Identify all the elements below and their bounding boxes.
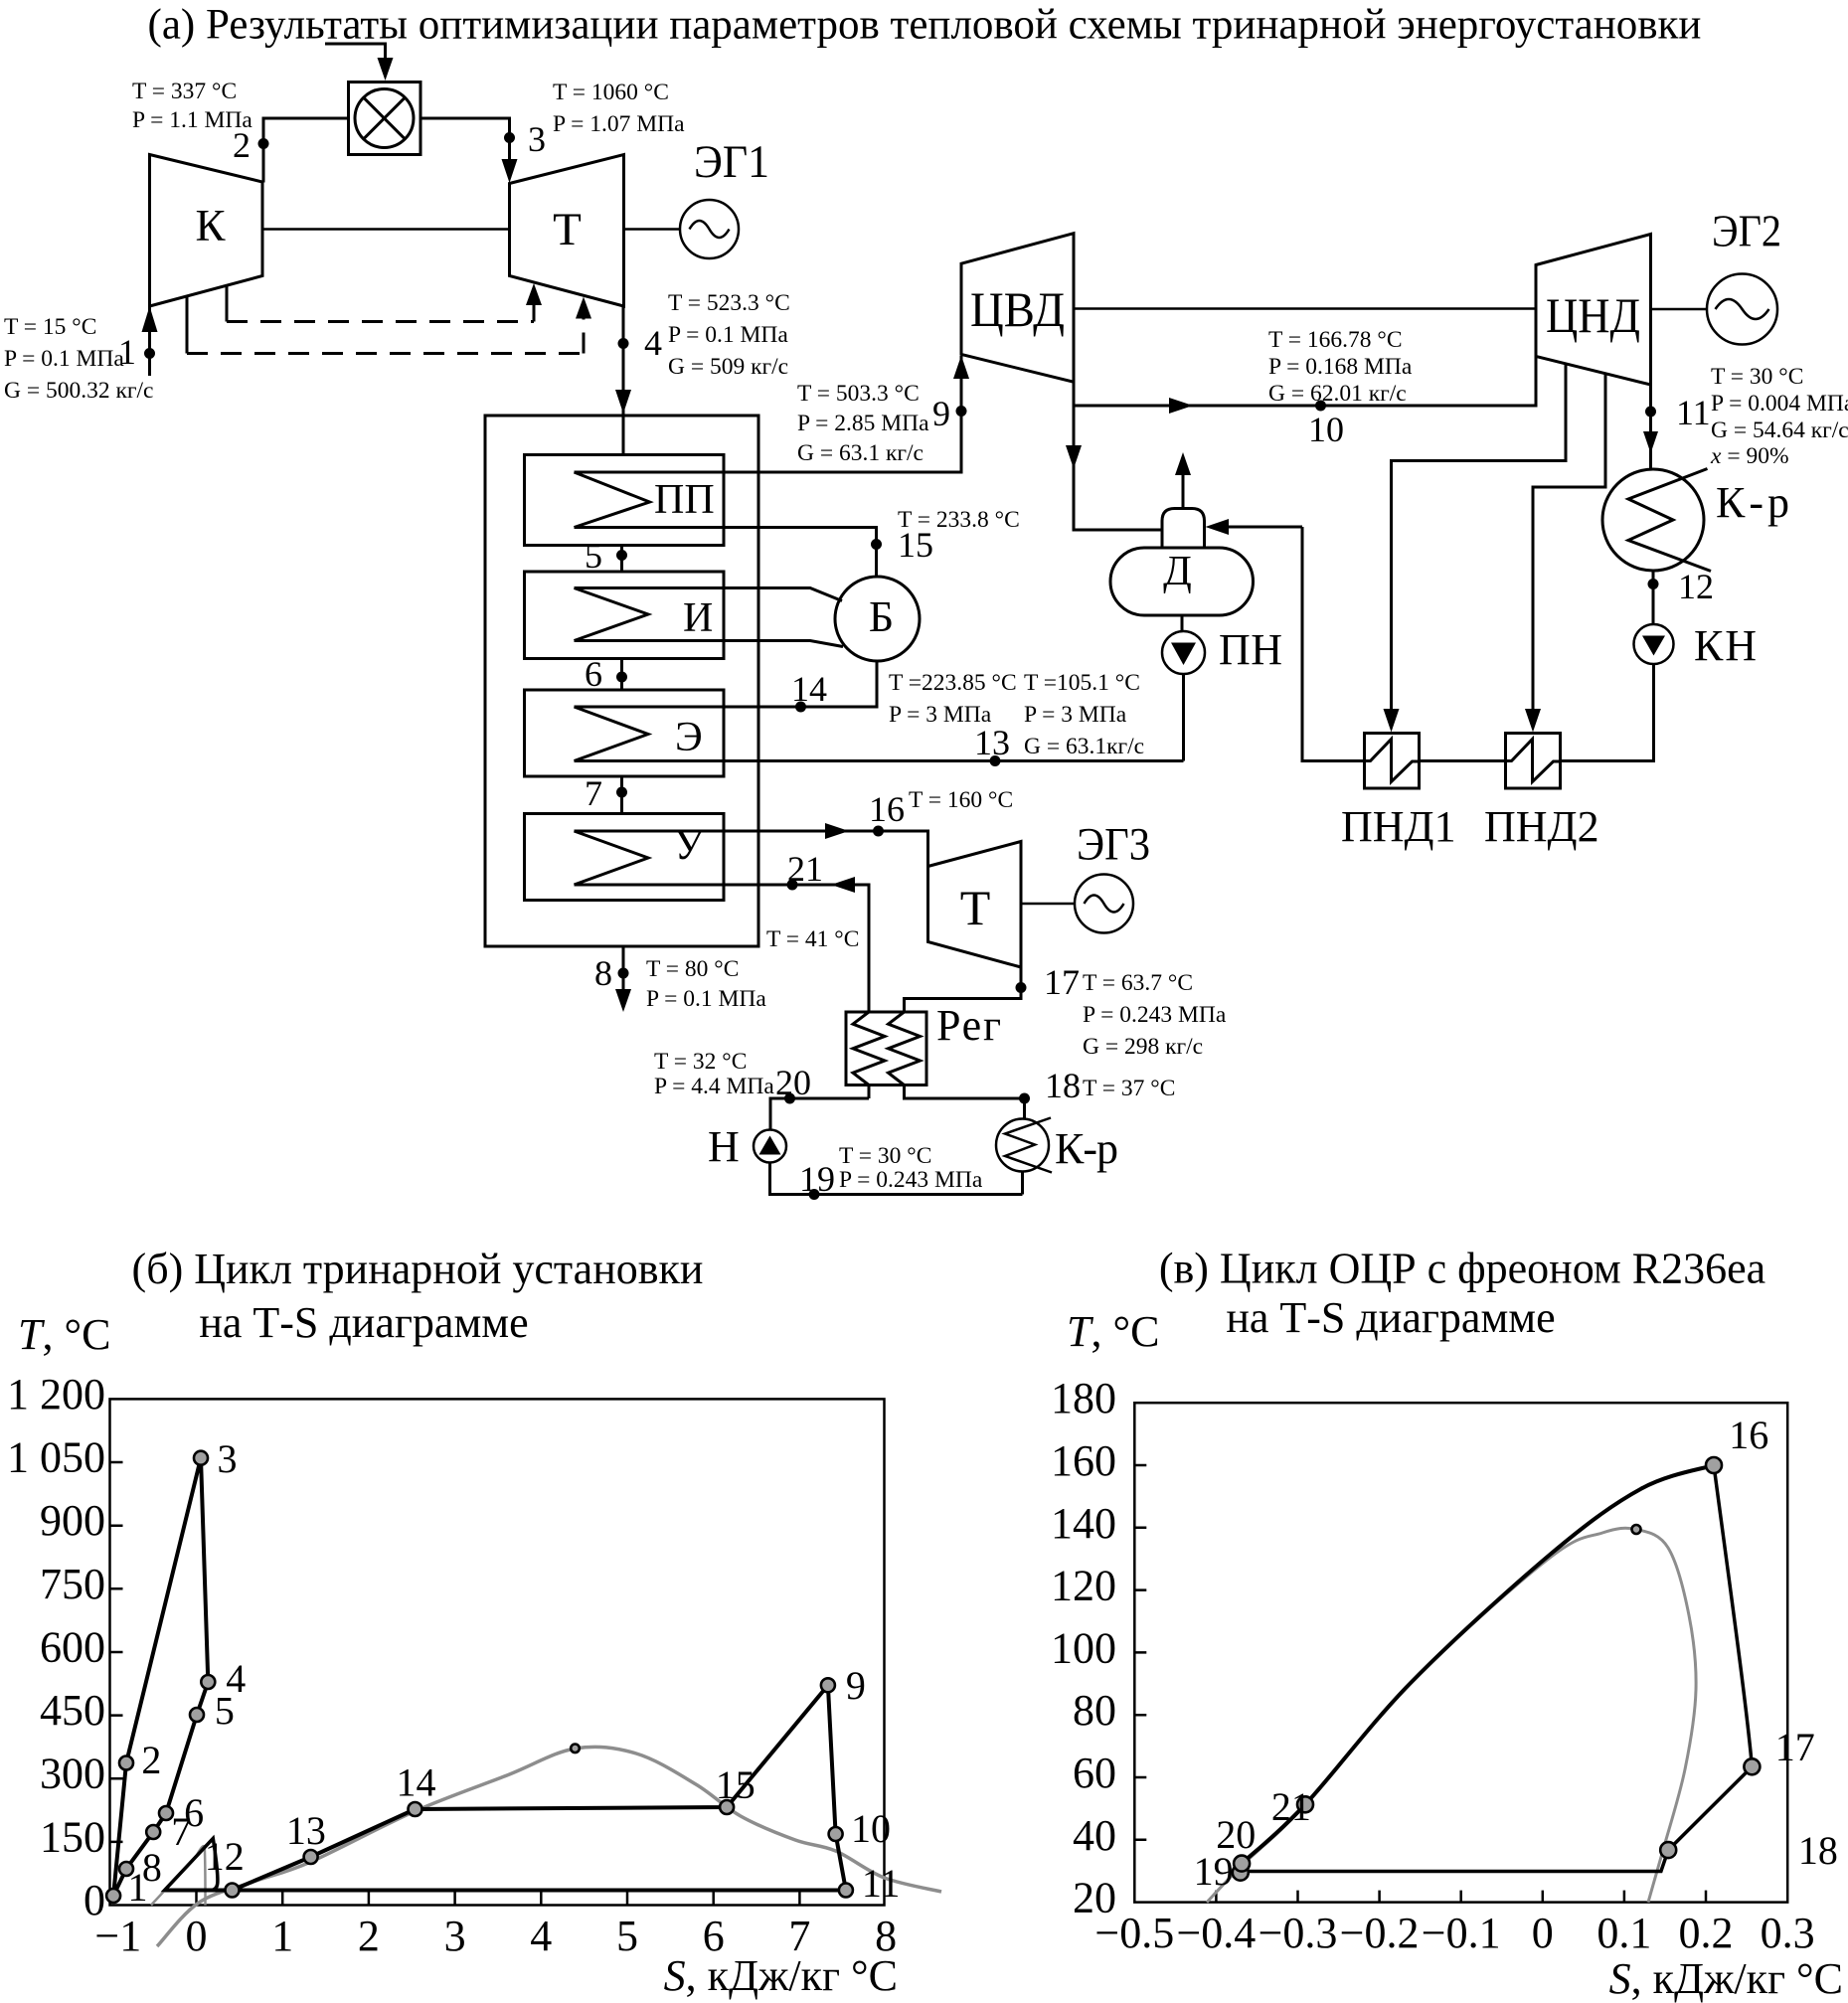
svg-text:G = 54.64 кг/с: G = 54.64 кг/с [1711,417,1848,443]
svg-text:Э: Э [675,715,703,760]
steam wire PP to HPT (node 9) [575,356,962,472]
exhaust wire CND to condenser (node 11) [1649,385,1652,469]
svg-text:ПНД1: ПНД1 [1341,802,1456,851]
svg-text:11: 11 [1676,393,1711,432]
svg-text:0.2: 0.2 [1679,1909,1734,1957]
svg-text:T = 63.7 °C: T = 63.7 °C [1083,970,1193,996]
LP turbine CND [1536,235,1651,386]
condensate wire into deaerator [1225,526,1302,529]
svg-text:8: 8 [142,1845,162,1890]
svg-text:7: 7 [585,773,602,813]
wire gas turbine exhaust to HRSG [622,306,625,455]
svg-text:T, °C: T, °C [18,1310,110,1359]
svg-text:P = 2.85 МПа: P = 2.85 МПа [797,411,929,436]
svg-text:T = 37 °C: T = 37 °C [1083,1076,1175,1101]
svg-text:19: 19 [799,1159,835,1199]
wire combustion chamber to turbine [420,118,510,161]
condenser K-r (steam) [1602,469,1704,571]
shaft ORC turbine to EG3 [1021,903,1075,906]
svg-text:ПНД2: ПНД2 [1484,802,1599,851]
svg-text:60: 60 [1073,1749,1116,1797]
HRSG exhaust wire node 8 [622,946,625,992]
svg-text:18: 18 [1045,1066,1081,1105]
ORC steam wire U to turbine (node 16) [575,831,928,867]
svg-text:ЭГ1: ЭГ1 [694,136,769,188]
shaft T to EG1 [624,228,681,231]
svg-text:T = 337 °C: T = 337 °C [132,79,237,104]
svg-text:(в) Цикл ОЦР с фреоном R236ea: (в) Цикл ОЦР с фреоном R236ea [1159,1245,1765,1293]
svg-text:10: 10 [1308,410,1344,449]
svg-text:ЦВД: ЦВД [970,281,1065,337]
svg-text:T = 523.3 °C: T = 523.3 °C [668,290,790,316]
svg-text:13: 13 [974,723,1010,762]
HP turbine CVD [961,234,1074,383]
generator EG1 [680,200,739,258]
svg-text:P = 0.004 МПа: P = 0.004 МПа [1711,391,1848,417]
chart v R236ea saturation dome (gray) [1207,1528,1696,1902]
svg-text:2: 2 [141,1738,161,1782]
svg-text:G = 63.1кг/с: G = 63.1кг/с [1024,734,1144,759]
svg-text:(б) Цикл тринарной установки: (б) Цикл тринарной установки [132,1245,704,1293]
economizer E coil [575,707,649,761]
svg-text:T, °C: T, °C [1067,1307,1159,1356]
svg-text:−0.2: −0.2 [1340,1909,1420,1957]
wire deaerator to feed pump [1181,615,1184,632]
wire compressor outlet to combustion chamber [263,118,349,183]
svg-text:x = 90%: x = 90% [1710,443,1789,469]
regenerator Reg box [846,1012,926,1085]
fuel inlet arrow [378,58,394,81]
svg-text:0.3: 0.3 [1761,1909,1815,1957]
svg-text:S, кДж/кг °С: S, кДж/кг °С [664,1951,898,2000]
svg-text:T = 160 °C: T = 160 °C [909,787,1013,813]
svg-text:T = 30 °C: T = 30 °C [839,1143,931,1169]
svg-text:−0.4: −0.4 [1176,1909,1256,1957]
svg-text:G = 500.32 кг/с: G = 500.32 кг/с [4,378,154,404]
generator EG3 [1075,875,1133,933]
svg-text:5: 5 [585,536,602,576]
svg-text:Т: Т [553,204,582,255]
chart b steam cycle line [233,1685,846,1890]
wire Reg right coil to node 18 [905,1085,1025,1099]
svg-text:4: 4 [644,323,662,363]
svg-text:100: 100 [1051,1623,1116,1672]
extraction wire CND to PND2 [1533,375,1605,719]
svg-text:9: 9 [846,1663,866,1708]
svg-text:G = 62.01 кг/с: G = 62.01 кг/с [1268,381,1407,407]
chart v y ticks [1134,1465,1146,1840]
extraction wire CVD to deaerator [1074,406,1162,530]
svg-text:Т: Т [960,880,991,935]
svg-text:4: 4 [530,1912,552,1960]
svg-text:К-р: К-р [1716,478,1789,527]
svg-text:на Т-S диаграмме: на Т-S диаграмме [1226,1293,1555,1342]
air inlet arrow [142,306,158,332]
gas turbine T [510,155,624,307]
wire economizer to drum (node 14) [575,661,878,707]
svg-text:T =105.1 °C: T =105.1 °C [1024,670,1140,696]
svg-text:14: 14 [791,669,827,709]
LP heater PND2 box [1506,734,1561,789]
economizer E box [525,690,725,776]
svg-text:6: 6 [585,654,602,694]
ORC turbine T [928,842,1022,968]
svg-text:P = 0.243 МПа: P = 0.243 МПа [839,1167,983,1193]
Reg left coil [853,1012,885,1085]
ORC evaporator U coil [575,831,649,885]
svg-text:P = 0.168 МПа: P = 0.168 МПа [1268,354,1413,380]
chart b gas cycle line [113,1458,208,1896]
wire node 18 to ORC condenser [1023,1098,1026,1119]
svg-text:16: 16 [869,789,905,829]
feed pump PN [1162,631,1205,674]
HRSG outer box [485,416,758,946]
svg-text:3: 3 [528,119,546,159]
condensate wire KN to heaters to deaerator [1302,527,1654,761]
svg-text:Н: Н [708,1122,740,1171]
arrow into gas turbine [502,159,518,183]
svg-text:P = 0.243 МПа: P = 0.243 МПа [1083,1002,1227,1028]
svg-text:ЭГ3: ЭГ3 [1077,819,1150,871]
wire pump N suction (node 19) [770,1163,1023,1195]
svg-text:18: 18 [1798,1828,1838,1873]
svg-text:21: 21 [787,849,823,889]
node 3 [504,132,515,143]
wire drum to evaporator lower [575,641,844,647]
svg-text:К: К [195,201,226,250]
svg-text:−1: −1 [94,1912,141,1960]
combustion chamber cross [364,97,406,139]
svg-text:T = 503.3 °C: T = 503.3 °C [797,381,920,407]
chart b mini ORC cycle [165,1838,218,1890]
svg-text:P = 4.4 МПа: P = 4.4 МПа [654,1074,774,1099]
svg-text:0.1: 0.1 [1596,1909,1651,1957]
chart b x ticks [197,1893,800,1906]
svg-text:ПП: ПП [654,477,715,523]
svg-text:21: 21 [1271,1784,1311,1829]
chart b water saturation dome (gray) [157,1747,941,1946]
node 2 [258,138,269,149]
svg-text:P = 0.1 МПа: P = 0.1 МПа [668,322,788,348]
svg-text:P = 1.1 МПа: P = 1.1 МПа [132,107,252,133]
svg-text:1: 1 [271,1912,293,1960]
shaft CND to EG2 [1651,308,1708,311]
node 15 [871,539,882,550]
svg-text:20: 20 [1216,1812,1256,1857]
wire ORC condenser to node 19 line [1021,1172,1024,1195]
wire drum B to PP [575,528,877,578]
svg-text:10: 10 [851,1806,891,1851]
svg-text:8: 8 [594,953,612,993]
node 4 [618,338,629,349]
svg-text:300: 300 [40,1750,105,1798]
Reg right coil [889,1012,921,1085]
svg-text:T = 80 °C: T = 80 °C [646,956,739,982]
ORC pump N [754,1130,786,1163]
generator EG2 [1707,274,1777,345]
air inlet wire [148,304,151,376]
svg-text:ПН: ПН [1219,625,1282,674]
svg-text:12: 12 [205,1834,245,1879]
svg-text:Д: Д [1163,549,1192,594]
node 1 [144,348,155,359]
svg-text:3: 3 [218,1436,238,1481]
combustion chamber box [349,83,421,155]
svg-text:0: 0 [1532,1909,1554,1957]
svg-text:14: 14 [397,1760,436,1805]
ORC evaporator U box [525,814,725,901]
wire Reg left coil down to node 20 line [868,1085,871,1099]
svg-text:P = 0.1 МПа: P = 0.1 МПа [646,986,766,1012]
LP heater PND1 box [1365,734,1420,789]
node 7 wire [620,776,623,814]
svg-text:5: 5 [616,1912,638,1960]
chart v x ticks [1216,1891,1706,1903]
wire evaporator to drum upper [575,588,843,601]
ORC return wire Reg to U (node 21) [575,885,870,1012]
svg-text:ЦНД: ЦНД [1546,287,1640,343]
svg-text:P = 0.1 МПа: P = 0.1 МПа [4,346,124,372]
chart b cycle points [106,1889,120,1903]
svg-text:17: 17 [1044,962,1080,1002]
chart v cycle points [1706,1457,1722,1473]
node 5 wire [620,546,623,573]
svg-text:T = 32 °C: T = 32 °C [654,1049,747,1075]
svg-text:80: 80 [1073,1686,1116,1735]
chart v dome peak point [1632,1525,1641,1534]
condensate pump KN [1634,624,1674,664]
svg-text:15: 15 [716,1762,756,1807]
chart b bottom line 11-12 [165,1889,846,1893]
svg-text:140: 140 [1051,1499,1116,1548]
svg-text:на Т-S диаграмме: на Т-S диаграмме [199,1298,528,1347]
deaerator vent arrow [1182,471,1185,509]
svg-text:20: 20 [775,1063,811,1102]
svg-text:12: 12 [1678,567,1714,606]
cooling air bleed wire lower (dashed) [186,296,189,354]
shaft K to T [262,228,510,231]
svg-text:−0.1: −0.1 [1422,1909,1501,1957]
chart b mini ORC dome (gray) [151,1846,206,1905]
svg-text:−0.3: −0.3 [1259,1909,1338,1957]
wire node 20 to pump N [770,1098,869,1130]
svg-text:(а) Результаты оптимизации пар: (а) Результаты оптимизации параметров те… [148,2,1702,49]
feedwater wire PN to economizer (node 13) [575,759,1184,762]
deaerator vessel D [1110,548,1254,615]
svg-text:Б: Б [869,592,894,641]
compressor K [150,155,263,307]
svg-text:G = 509 кг/с: G = 509 кг/с [668,354,788,380]
deaerator dome [1162,509,1205,549]
svg-text:40: 40 [1073,1811,1116,1860]
svg-text:13: 13 [286,1808,326,1853]
svg-text:17: 17 [1775,1725,1815,1769]
shaft CVD to CND [1074,307,1536,310]
svg-text:T = 166.78 °C: T = 166.78 °C [1268,327,1403,353]
wire ORC turbine outlet to Reg (node 17) [905,967,1022,1012]
svg-text:S, кДж/кг °С: S, кДж/кг °С [1609,1954,1843,2003]
chart b y ticks [110,1462,123,1842]
svg-text:P = 1.07 МПа: P = 1.07 МПа [553,111,685,137]
svg-text:750: 750 [40,1560,105,1608]
svg-text:T = 15 °C: T = 15 °C [4,314,96,340]
svg-text:И: И [683,595,713,641]
svg-text:450: 450 [40,1686,105,1735]
svg-text:T = 1060 °C: T = 1060 °C [553,80,669,105]
svg-text:5: 5 [215,1689,235,1734]
evaporator I box [525,572,725,659]
svg-text:3: 3 [444,1912,466,1960]
svg-text:120: 120 [1051,1562,1116,1610]
chart v cycle line 20-21-16 [1242,1465,1714,1864]
svg-text:Рег: Рег [936,1001,1001,1050]
reheat wire CVD to CND (node 10) [1074,357,1536,407]
svg-text:7: 7 [171,1809,191,1854]
wire feed pump outlet [1182,674,1185,761]
svg-text:T = 41 °C: T = 41 °C [766,926,859,952]
svg-text:160: 160 [1051,1436,1116,1485]
chart b frame [110,1399,885,1905]
svg-text:11: 11 [862,1861,901,1906]
svg-text:600: 600 [40,1623,105,1672]
svg-text:0: 0 [186,1912,208,1960]
svg-text:180: 180 [1051,1374,1116,1422]
svg-text:G = 63.1 кг/с: G = 63.1 кг/с [797,440,924,466]
svg-text:16: 16 [1729,1413,1768,1457]
svg-text:1 200: 1 200 [7,1370,105,1419]
evaporator I coil [575,588,649,641]
svg-text:КН: КН [1694,621,1757,670]
svg-text:1 050: 1 050 [7,1433,105,1482]
svg-text:P = 3 МПа: P = 3 МПа [1024,702,1127,728]
drum B [835,577,920,661]
wire condenser to pump KN (node 12) [1652,571,1655,624]
svg-text:150: 150 [40,1812,105,1861]
chart v frame [1134,1403,1787,1902]
chart b dome peak point [571,1745,580,1753]
fuel inlet wire [325,44,386,62]
svg-text:2: 2 [358,1912,380,1960]
svg-text:900: 900 [40,1496,105,1545]
svg-text:T = 30 °C: T = 30 °C [1711,364,1803,390]
node 6 wire [620,659,623,691]
ORC condenser K-r [996,1119,1049,1172]
superheater PP box [525,455,725,546]
svg-text:9: 9 [932,394,950,433]
svg-text:T = 233.8 °C: T = 233.8 °C [898,507,1020,533]
chart v cycle line 16-17-18-19-20 [1241,1465,1753,1872]
extraction wire CND to PND1 [1392,364,1567,718]
cooling air bleed wire upper (dashed) [226,285,229,322]
svg-text:−0.5: −0.5 [1094,1909,1174,1957]
superheater PP coil [575,472,650,528]
combustion chamber circle [355,89,414,148]
svg-text:К-р: К-р [1055,1124,1118,1173]
svg-text:ЭГ2: ЭГ2 [1712,207,1781,256]
svg-text:G = 298 кг/с: G = 298 кг/с [1083,1034,1203,1060]
svg-text:T =223.85 °C: T =223.85 °C [889,670,1017,696]
